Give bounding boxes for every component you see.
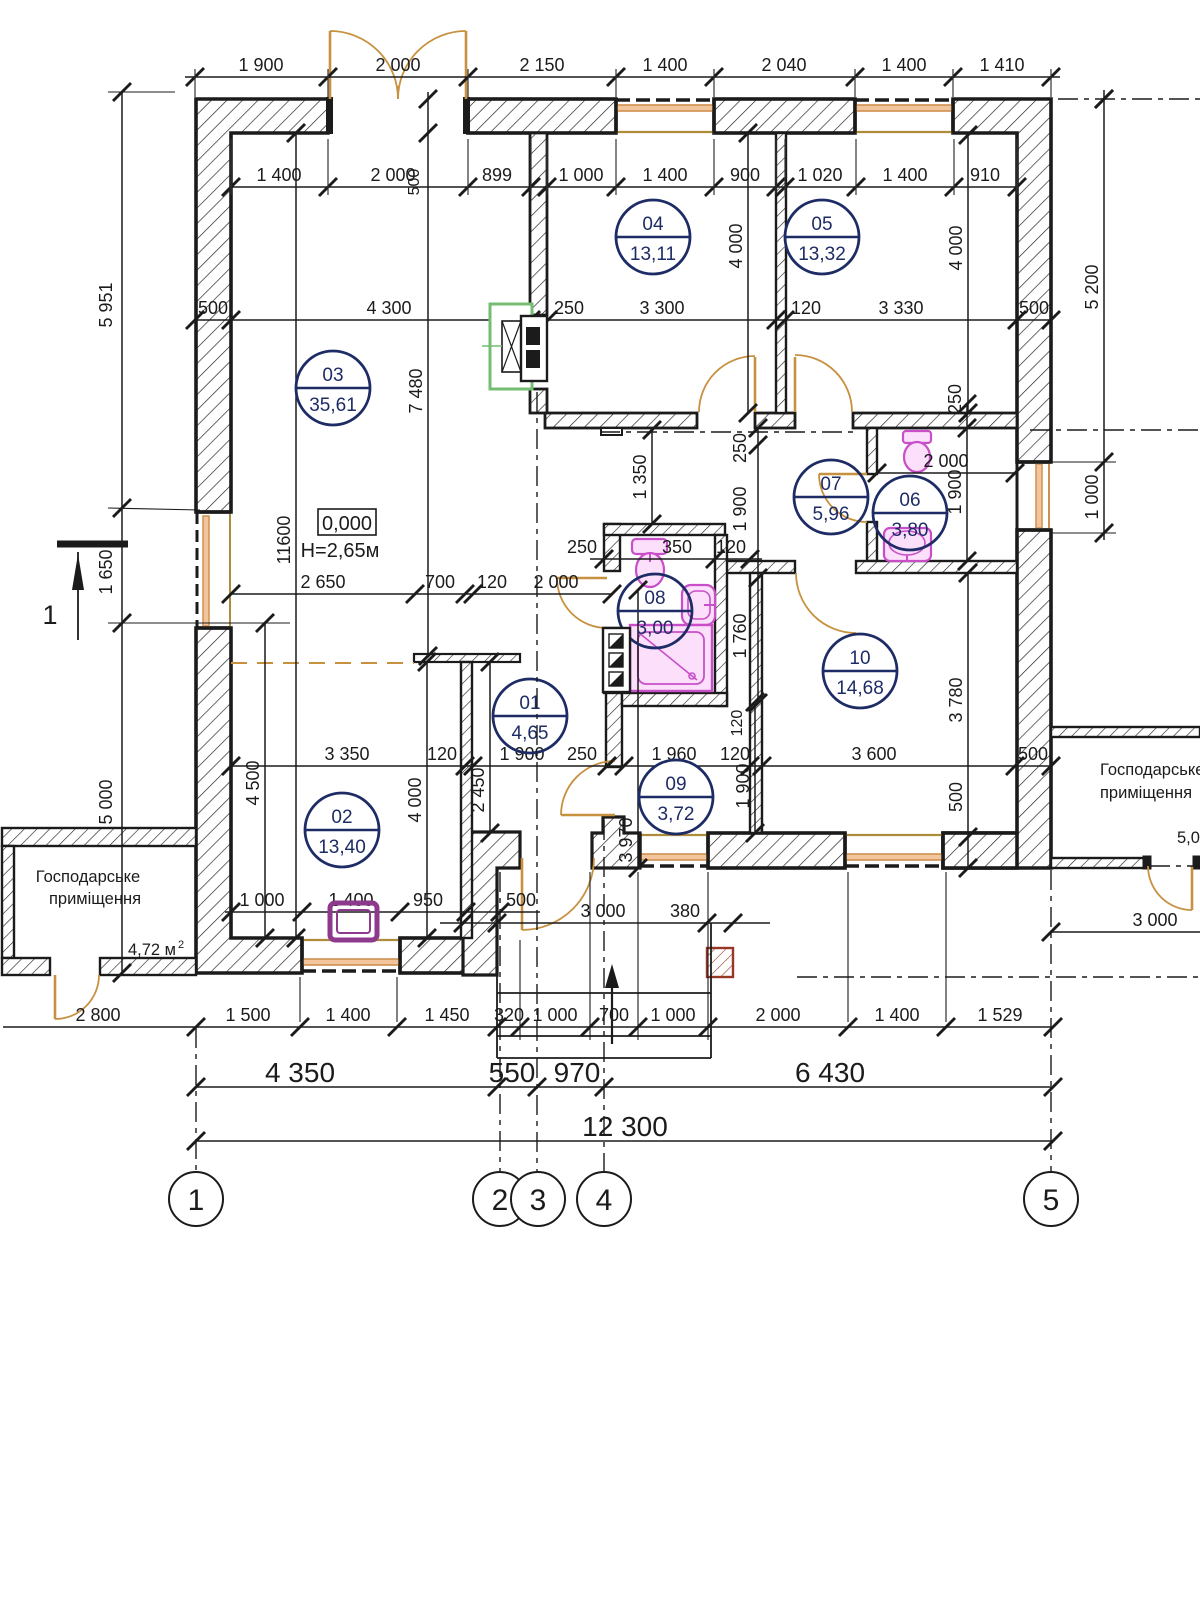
svg-text:250: 250 [567, 744, 597, 764]
dim row top [185, 55, 1060, 97]
red chimney square [707, 948, 733, 977]
dim 7480 [406, 92, 437, 665]
dim row porch [440, 901, 770, 932]
axis horizontal annex door [1150, 865, 1200, 867]
svg-text:4 500: 4 500 [243, 760, 263, 805]
svg-text:4 000: 4 000 [726, 223, 746, 268]
svg-text:1 760: 1 760 [730, 613, 750, 658]
svg-text:приміщення: приміщення [1100, 784, 1192, 802]
svg-text:120: 120 [477, 572, 507, 592]
svg-text:1 450: 1 450 [424, 1005, 469, 1025]
door room05 [795, 355, 852, 412]
wall below rooms 04-05 seg b [755, 413, 795, 428]
svg-text:3 350: 3 350 [324, 744, 369, 764]
dim row corridor upper [222, 572, 621, 603]
svg-text:120: 120 [791, 298, 821, 318]
dim room09 height [733, 693, 764, 842]
svg-text:500: 500 [1018, 744, 1048, 764]
window left room03 [196, 512, 231, 628]
svg-text:5 951: 5 951 [96, 282, 116, 327]
dim 120 rotated small [729, 710, 746, 737]
svg-text:1 000: 1 000 [558, 165, 603, 185]
svg-text:1 400: 1 400 [874, 1005, 919, 1025]
svg-text:1 500: 1 500 [225, 1005, 270, 1025]
svg-text:350: 350 [662, 537, 692, 557]
flue black box [521, 316, 547, 381]
svg-text:1 400: 1 400 [642, 165, 687, 185]
T-wall stem [461, 662, 472, 938]
room 01 label circle [493, 679, 567, 753]
svg-text:3 970: 3 970 [616, 817, 636, 862]
svg-text:970: 970 [554, 1057, 601, 1088]
svg-text:10: 10 [849, 648, 870, 669]
axis horizontal bottom right [797, 976, 1200, 978]
room 07 label circle [794, 460, 868, 534]
svg-text:2 040: 2 040 [761, 55, 806, 75]
axis line 2 [499, 872, 501, 1171]
svg-text:Н=2,65м: Н=2,65м [301, 540, 380, 562]
dim row upper interior [222, 139, 1026, 196]
purple appliance room02 [330, 903, 377, 940]
svg-text:07: 07 [820, 474, 841, 495]
dim 4500 [243, 614, 274, 947]
dim right of corridor [730, 419, 767, 712]
left annex title [36, 868, 141, 908]
room 06 label circle [873, 476, 947, 550]
toilet bathroom08 [632, 539, 667, 587]
svg-text:120: 120 [427, 744, 457, 764]
room 03 label circle [296, 351, 370, 425]
axis line 5 [1050, 870, 1052, 1171]
svg-text:13,32: 13,32 [798, 244, 846, 265]
right annex bottom wall [1051, 858, 1146, 868]
door room04 [699, 356, 755, 412]
svg-text:500: 500 [506, 890, 536, 910]
svg-text:11600: 11600 [274, 516, 294, 565]
svg-text:550: 550 [489, 1057, 536, 1088]
partition rooms 04-05 [776, 133, 786, 413]
corridor right wall lower [606, 693, 622, 767]
dim row room06 [868, 451, 1024, 482]
left annex bottom wall b [100, 958, 196, 975]
corridor right wall upper [604, 524, 620, 571]
svg-text:06: 06 [899, 490, 920, 511]
riser block corridor [603, 628, 630, 692]
dim row bottom C [187, 1111, 1062, 1150]
right annex door jamb left [1143, 856, 1151, 869]
svg-text:1 529: 1 529 [977, 1005, 1022, 1025]
svg-text:приміщення: приміщення [49, 890, 141, 908]
entrance pier [463, 832, 520, 975]
svg-text:1 650: 1 650 [96, 549, 116, 594]
svg-text:5: 5 [1043, 1184, 1060, 1217]
partition hall-room06 upper [867, 428, 877, 474]
axis line 3 [536, 392, 538, 1171]
svg-text:900: 900 [730, 165, 760, 185]
dim row bottom A [3, 1005, 1062, 1036]
axis horizontal corridor [600, 431, 855, 433]
left annex top wall [2, 828, 196, 846]
left annex left wall [2, 846, 14, 958]
bathroom top wall [604, 524, 725, 535]
dim 4000 room04 [726, 124, 757, 422]
svg-text:1 400: 1 400 [328, 890, 373, 910]
door hall to room06 [819, 474, 867, 522]
wall below rooms 04-05 seg c [853, 413, 1017, 428]
dim left vertical [96, 83, 290, 982]
wall rooms 09-10 [750, 573, 762, 833]
axis bubble 3 [511, 1172, 565, 1226]
svg-text:09: 09 [665, 774, 686, 795]
svg-text:3,80: 3,80 [892, 520, 929, 541]
svg-text:120: 120 [716, 537, 746, 557]
dim 11600 [274, 124, 305, 947]
exterior wall top-left corner [196, 99, 328, 512]
window top room05 [855, 99, 953, 133]
exterior wall top segment T2 [468, 99, 616, 133]
svg-text:2 000: 2 000 [375, 55, 420, 75]
exterior wall bottom middle [708, 833, 845, 868]
bathroom right wall [715, 535, 727, 706]
svg-text:13,11: 13,11 [630, 244, 676, 265]
axis line 4 [603, 820, 605, 1171]
main entrance double door [326, 31, 470, 134]
svg-text:4 000: 4 000 [946, 225, 966, 270]
svg-text:2 650: 2 650 [300, 572, 345, 592]
right annex title [1100, 761, 1200, 802]
svg-text:04: 04 [642, 214, 664, 235]
flue green stove [482, 304, 532, 389]
axis bubble 5 [1024, 1172, 1078, 1226]
axis bubble 2 [473, 1172, 527, 1226]
dim 4000 room05 [946, 126, 977, 422]
svg-text:2 000: 2 000 [533, 572, 578, 592]
washbasin bathroom08 [682, 585, 715, 625]
room03-room02 boundary dashed [231, 662, 414, 664]
exterior wall bottom left b [400, 938, 466, 973]
exterior wall right lower + bottom corner [943, 530, 1051, 868]
right annex door jamb right [1193, 856, 1200, 869]
left annex door [55, 975, 99, 1019]
svg-text:02: 02 [331, 807, 352, 828]
svg-text:1 410: 1 410 [979, 55, 1024, 75]
svg-text:3: 3 [530, 1184, 547, 1217]
svg-text:2 000: 2 000 [755, 1005, 800, 1025]
right annex area [1177, 829, 1200, 847]
svg-text:1 900: 1 900 [238, 55, 283, 75]
svg-text:3 780: 3 780 [946, 677, 966, 722]
svg-text:1 400: 1 400 [642, 55, 687, 75]
svg-text:500: 500 [946, 782, 966, 812]
T-wall cap [414, 654, 520, 662]
dim row bottom interior [222, 890, 540, 921]
axis horizontal top right [1058, 90, 1200, 108]
right annex top wall [1051, 727, 1200, 737]
svg-text:910: 910 [970, 165, 1000, 185]
svg-text:250: 250 [730, 433, 750, 463]
svg-text:4 000: 4 000 [405, 777, 425, 822]
door hall to room10 [796, 573, 856, 633]
axis bubble 4 [577, 1172, 631, 1226]
dim 1350 [630, 421, 661, 533]
dim row middle wide [222, 744, 1060, 775]
svg-text:120: 120 [729, 710, 746, 737]
toilet room06 [903, 431, 931, 472]
entrance exterior door [522, 858, 594, 930]
svg-text:2: 2 [492, 1184, 509, 1217]
wall vestibule-room04 upper [530, 133, 547, 315]
svg-text:1 900: 1 900 [730, 486, 750, 531]
svg-text:5 200: 5 200 [1082, 264, 1102, 309]
svg-text:250: 250 [945, 384, 965, 414]
svg-text:1 400: 1 400 [882, 165, 927, 185]
svg-text:3 300: 3 300 [639, 298, 684, 318]
svg-text:2 000: 2 000 [923, 451, 968, 471]
svg-text:35,61: 35,61 [309, 395, 357, 416]
dim row annex right [1042, 910, 1200, 941]
svg-text:2 450: 2 450 [468, 767, 488, 812]
svg-text:2 150: 2 150 [519, 55, 564, 75]
porch extension lines [300, 872, 946, 1040]
svg-text:950: 950 [413, 890, 443, 910]
room 02 label circle [305, 793, 379, 867]
dim row third [186, 298, 1060, 329]
svg-text:1 400: 1 400 [325, 1005, 370, 1025]
axis horizontal mid right [1030, 429, 1200, 431]
svg-text:5 000: 5 000 [96, 779, 116, 824]
shower tray bathroom08 [630, 625, 712, 691]
porch entry arrow [605, 964, 619, 1044]
svg-text:4,72 м: 4,72 м [128, 941, 176, 959]
svg-text:Господарське: Господарське [1100, 761, 1200, 779]
room 09 label circle [639, 760, 713, 834]
svg-text:3 330: 3 330 [878, 298, 923, 318]
right annex door [1148, 866, 1192, 910]
door bathroom 08 [557, 578, 607, 628]
level mark 0.000 [301, 509, 380, 562]
svg-text:Господарське: Господарське [36, 868, 140, 886]
svg-text:380: 380 [670, 901, 700, 921]
wall below rooms 06-07 seg a [725, 561, 795, 573]
left annex area [128, 939, 184, 959]
svg-text:2: 2 [178, 939, 184, 951]
room 10 label circle [823, 634, 897, 708]
svg-text:1 000: 1 000 [532, 1005, 577, 1025]
window bottom room10 [845, 833, 943, 867]
svg-text:5,00: 5,00 [1177, 829, 1200, 847]
porch outline [497, 868, 711, 1058]
axis bubble 1 [169, 1172, 223, 1226]
svg-text:1 000: 1 000 [650, 1005, 695, 1025]
window top room04 [616, 99, 714, 133]
svg-text:3 600: 3 600 [851, 744, 896, 764]
svg-text:1 350: 1 350 [630, 454, 650, 499]
bathroom bottom wall [622, 693, 727, 706]
svg-text:3 000: 3 000 [580, 901, 625, 921]
wall right of entrance door [592, 817, 640, 868]
svg-text:2 800: 2 800 [75, 1005, 120, 1025]
wall 500 rotated label [406, 90, 437, 195]
svg-text:3,00: 3,00 [637, 618, 674, 639]
exterior wall left lower + bottom-left [196, 628, 302, 973]
svg-text:5,96: 5,96 [813, 504, 850, 525]
exterior wall top-right corner [953, 99, 1051, 462]
partition hall-room06 lower [867, 522, 877, 561]
svg-text:1 900: 1 900 [733, 763, 753, 808]
svg-text:1 000: 1 000 [1082, 474, 1102, 519]
dim row bathroom [567, 537, 762, 568]
dim room10 height [946, 564, 977, 877]
room 04 label circle [616, 200, 690, 274]
svg-text:6 430: 6 430 [795, 1057, 865, 1088]
window bottom room09 [640, 833, 708, 867]
svg-text:7 480: 7 480 [406, 368, 426, 413]
svg-text:05: 05 [811, 214, 832, 235]
svg-text:1: 1 [188, 1184, 205, 1217]
room 08 label circle [618, 574, 692, 648]
door room09 [561, 761, 615, 815]
svg-text:12 300: 12 300 [582, 1111, 668, 1142]
svg-text:1 020: 1 020 [797, 165, 842, 185]
svg-text:120: 120 [720, 744, 750, 764]
svg-text:1 400: 1 400 [881, 55, 926, 75]
exterior wall top segment T3 [714, 99, 855, 133]
wall below rooms 06-07 seg b [856, 561, 1017, 573]
svg-text:0,000: 0,000 [322, 513, 372, 535]
dim 3970 [616, 581, 647, 877]
exterior wall bottom right [943, 833, 1017, 868]
svg-text:1: 1 [42, 600, 57, 630]
wall vestibule-room04 lower [530, 389, 547, 413]
svg-text:500: 500 [1019, 298, 1049, 318]
wall notch below rooms wall [601, 428, 622, 435]
dim 4000 room02 [405, 653, 436, 947]
dim row bottom B [187, 1057, 1062, 1096]
svg-text:3 000: 3 000 [1132, 910, 1177, 930]
svg-text:1 000: 1 000 [239, 890, 284, 910]
svg-text:14,68: 14,68 [836, 678, 884, 699]
dim 2450 corridor [468, 653, 499, 842]
svg-text:08: 08 [644, 588, 665, 609]
room 05 label circle [785, 200, 859, 274]
svg-text:500: 500 [198, 298, 228, 318]
svg-text:4 350: 4 350 [265, 1057, 335, 1088]
corridor right wall mid [604, 628, 622, 693]
svg-text:250: 250 [554, 298, 584, 318]
washbasin room06 [884, 528, 931, 562]
dim right vertical [1051, 90, 1116, 542]
svg-text:250: 250 [567, 537, 597, 557]
svg-text:3,72: 3,72 [658, 804, 695, 825]
section mark 1 [42, 544, 128, 640]
svg-text:13,40: 13,40 [318, 837, 366, 858]
svg-text:03: 03 [322, 365, 343, 386]
svg-text:4: 4 [596, 1184, 613, 1217]
left annex bottom wall a [2, 958, 50, 975]
svg-text:700: 700 [425, 572, 455, 592]
wall below rooms 04-05 seg a [545, 413, 697, 428]
svg-text:500: 500 [406, 169, 423, 196]
window right room06 [1017, 462, 1051, 530]
dim room06 height [945, 384, 976, 570]
svg-text:899: 899 [482, 165, 512, 185]
svg-text:4 300: 4 300 [366, 298, 411, 318]
svg-text:1 400: 1 400 [256, 165, 301, 185]
axis line 1 [195, 1028, 197, 1171]
svg-text:4,65: 4,65 [512, 723, 549, 744]
window bottom room02 [302, 938, 400, 972]
